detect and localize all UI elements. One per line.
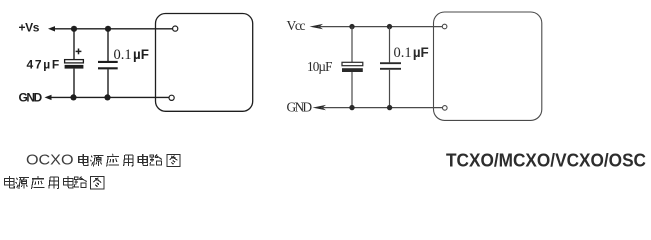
wire C4 upper lead (389, 27, 391, 63)
node junction bottom of C1 (70, 94, 76, 100)
arrow to Vcc (310, 24, 324, 29)
svg-text:0.1µF: 0.1µF (394, 45, 429, 61)
arrow to GND right (313, 105, 327, 110)
svg-text:Vcc: Vcc (287, 18, 306, 33)
wire bottom rail right (321, 107, 443, 109)
capacitor C1 47uF electrolytic plates (65, 60, 84, 69)
oscillator module U1 (OCXO) (156, 14, 253, 112)
pin 2 circle U2 ground (443, 106, 448, 111)
wire top rail left (54, 28, 173, 30)
wire C3 upper lead (351, 27, 353, 63)
svg-text:+Vs: +Vs (19, 21, 40, 35)
wire C2 upper lead (107, 29, 109, 61)
capacitor C4 0.1uF plates (380, 63, 401, 69)
pin 1 circle U2 supply (442, 24, 447, 29)
wire C4 lower lead (389, 70, 391, 108)
node junction bottom of C4 (387, 105, 392, 110)
arrow to GND left (45, 95, 52, 100)
caption line1 CJK 电源应用电路图 (79, 154, 180, 167)
svg-text:OCXO: OCXO (26, 152, 74, 169)
pin 2 circle U1 ground (169, 95, 174, 100)
svg-text:TCXO/MCXO/VCXO/OSC: TCXO/MCXO/VCXO/OSC (446, 151, 646, 171)
node junction bottom of C2 (104, 94, 110, 100)
wire C1 lower lead (73, 69, 75, 98)
capacitor C2 0.1uF plates (98, 62, 118, 68)
node junction top of C3 (349, 24, 354, 29)
svg-text:GND: GND (19, 90, 43, 104)
wire C1 upper lead (73, 29, 75, 60)
svg-text:47µF: 47µF (27, 58, 61, 72)
node junction top of C2 (105, 26, 111, 32)
wire bottom rail left (50, 96, 169, 98)
caption line2 CJK 电源应用电路图 (5, 176, 104, 189)
svg-text:10µF: 10µF (307, 59, 332, 74)
oscillator module U2 (TCXO/MCXO/VCXO/OSC) (434, 12, 542, 120)
wire C3 lower lead (351, 72, 353, 108)
pin 1 circle U1 supply (173, 26, 178, 31)
svg-text:0.1µF: 0.1µF (114, 47, 149, 63)
capacitor C3 10uF electrolytic plates (342, 62, 363, 72)
node junction top of C4 (387, 24, 392, 29)
capacitor C1 polarity plus (76, 49, 82, 55)
wire top rail right (318, 26, 442, 28)
node junction bottom of C3 (349, 105, 354, 110)
node junction top of C1 (71, 26, 77, 32)
wire C2 lower lead (107, 69, 109, 97)
arrow to +Vs (48, 26, 55, 31)
svg-text:GND: GND (287, 100, 313, 115)
